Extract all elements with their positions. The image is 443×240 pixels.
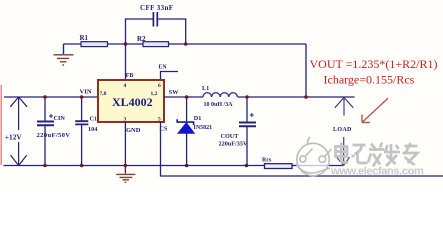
junction dot CIN top <box>43 95 47 99</box>
svg-text:Icharge=0.155/Rcs: Icharge=0.155/Rcs <box>324 73 415 87</box>
junction dot COUT top <box>245 95 249 99</box>
svg-text:5: 5 <box>158 117 161 123</box>
resistor R2 <box>137 35 169 47</box>
svg-text:3: 3 <box>124 117 127 123</box>
svg-text:COUT: COUT <box>221 133 240 140</box>
watermark chinese glyphs <box>336 143 418 167</box>
svg-text:CFF 33nF: CFF 33nF <box>140 4 173 12</box>
svg-text:7,8: 7,8 <box>100 91 107 97</box>
svg-text:C1: C1 <box>90 116 98 123</box>
junction dot R2/CFF right <box>184 42 188 46</box>
IC U1 XL4002 <box>98 80 164 122</box>
resistor Rcs <box>262 158 292 169</box>
wire VIN rail <box>4 96 98 98</box>
capacitor COUT <box>219 97 257 166</box>
svg-text:220uF/35V: 220uF/35V <box>219 140 248 147</box>
junction dot feedback tap <box>304 95 308 99</box>
junction dot CIN bottom <box>43 164 47 168</box>
junction dot D1 bottom <box>185 164 189 168</box>
capacitor CFF loop wires <box>126 19 186 44</box>
inductor L1 <box>202 85 237 108</box>
capacitor CFF <box>140 4 173 27</box>
resistor R1 <box>80 34 108 47</box>
junction dot FB divider <box>124 42 128 46</box>
junction dot C1 bottom <box>80 164 84 168</box>
svg-text:LOAD: LOAD <box>333 127 352 133</box>
wire CS pin sense line <box>161 122 443 176</box>
diode D1 <box>177 97 212 166</box>
svg-text:+12V: +12V <box>5 132 23 141</box>
ground (bottom, power gnd) <box>116 166 135 183</box>
red page-edge line <box>0 85 2 165</box>
junction dot C1 top <box>80 95 84 99</box>
wire bottom ground rail <box>4 165 344 167</box>
ground (left, at R1) <box>54 44 74 65</box>
svg-text:104: 104 <box>88 126 97 133</box>
svg-text:XL4002: XL4002 <box>112 95 153 109</box>
svg-text:R1: R1 <box>80 34 89 42</box>
capacitor CIN <box>37 97 71 166</box>
power source +12V <box>10 97 27 166</box>
wire feedback rail y44 <box>64 43 307 45</box>
junction dot COUT bottom <box>245 164 249 168</box>
capacitor C1 <box>75 97 97 166</box>
junction dot GND pin bottom <box>124 164 128 168</box>
svg-text:10 0uH /3A: 10 0uH /3A <box>204 102 234 108</box>
svg-text:FB: FB <box>126 73 134 79</box>
svg-text:EN: EN <box>159 65 168 71</box>
red annotation arrow <box>362 98 388 122</box>
svg-text:Rcs: Rcs <box>262 158 272 164</box>
svg-text:CIN: CIN <box>54 115 66 122</box>
wire FB pin <box>125 44 127 80</box>
junction dot D1 top <box>185 95 189 99</box>
svg-text:www.elecfans.com: www.elecfans.com <box>330 166 424 178</box>
svg-text:4: 4 <box>124 83 127 89</box>
watermark logo circle <box>296 137 332 176</box>
svg-text:VOUT =1.235*(1+R2/R1): VOUT =1.235*(1+R2/R1) <box>310 57 438 71</box>
wire SW output rail <box>164 96 355 98</box>
load symbol arrows <box>335 98 354 166</box>
svg-text:D1: D1 <box>194 115 202 122</box>
svg-text:220uF/50V: 220uF/50V <box>37 132 71 139</box>
svg-text:1,2: 1,2 <box>151 91 158 97</box>
wire GND pin to rail <box>124 122 126 166</box>
svg-text:GND: GND <box>126 127 141 134</box>
svg-text:R2: R2 <box>137 35 146 43</box>
wire EN stub <box>161 72 179 81</box>
svg-text:L1: L1 <box>202 85 209 92</box>
svg-text:IN5821: IN5821 <box>194 125 213 131</box>
svg-text:VIN: VIN <box>80 89 92 96</box>
wire feedback drop to output <box>305 44 307 97</box>
svg-text:SW: SW <box>169 89 179 96</box>
svg-text:6: 6 <box>158 83 161 89</box>
